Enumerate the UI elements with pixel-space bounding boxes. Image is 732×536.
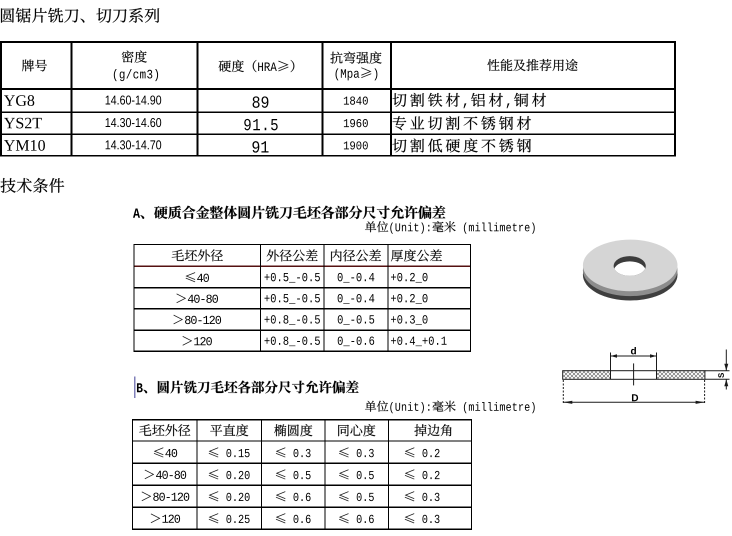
table 1: grade/property table grid: [0, 41, 676, 157]
3D washer disc clipart: [583, 240, 678, 301]
subtitle 技术条件: [1, 178, 16, 193]
text cursor artifact: [134, 377, 135, 399]
table 1 data rows YG8/YS2T/YM10: [4, 95, 15, 105]
table B header and value text: [139, 424, 151, 435]
dimension label D: [632, 394, 638, 401]
dimension label d: [631, 347, 636, 354]
table B grid: [132, 419, 472, 530]
table 1 header row text: [22, 60, 34, 72]
section A heading: [133, 209, 140, 218]
unit line B: [365, 401, 376, 412]
section B heading: [137, 383, 143, 392]
page title 圆锯片铣刀、切刀系列: [1, 8, 14, 22]
cross-section side view of disc: [563, 350, 730, 405]
thickness label S (rotated): [718, 373, 724, 378]
table A header and value text: [172, 249, 184, 260]
unit line A: [365, 221, 376, 232]
table A grid: [133, 244, 471, 352]
